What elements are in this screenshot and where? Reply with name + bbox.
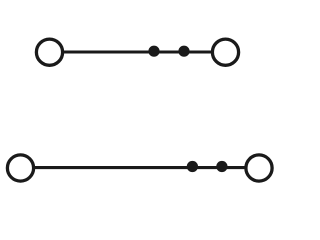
terminal 1.2 (upper-right clamp, open circle) <box>212 39 238 65</box>
junction (level 2, right bridge tap) <box>216 161 227 172</box>
terminal 2.1 (lower-left clamp, open circle) <box>7 155 33 181</box>
wire (level 1 conductor) <box>62 50 212 53</box>
wire (level 2 conductor) <box>33 166 246 169</box>
junction (level 1, right bridge tap) <box>178 46 189 57</box>
junction (level 2, left bridge tap) <box>187 161 198 172</box>
junction (level 1, left bridge tap) <box>148 46 159 57</box>
terminal 1.1 (upper-left clamp, open circle) <box>36 39 62 65</box>
terminal 2.2 (lower-right clamp, open circle) <box>246 155 272 181</box>
